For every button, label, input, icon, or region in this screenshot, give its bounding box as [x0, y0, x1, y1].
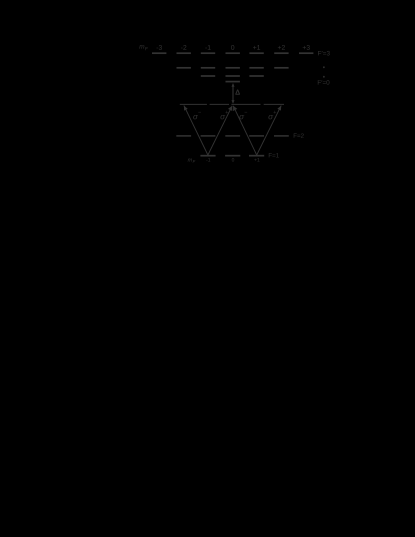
level F=1 m=1: [249, 155, 264, 157]
value label Delta: [236, 90, 240, 95]
level F'=1 m=1: [249, 75, 263, 77]
virtual level dashed line: [180, 103, 207, 105]
level F'=2 m=-2: [177, 67, 191, 69]
level F=1 m=0: [225, 155, 240, 157]
wire label sigma-plus 2: [220, 115, 225, 119]
arrowhead Delta top: [232, 83, 235, 87]
node label m=0 (top): [231, 45, 234, 50]
wire detuning arrow Delta shaft: [232, 84, 234, 103]
node label F'=0: [318, 80, 330, 85]
node label m=3 (top): [303, 45, 310, 50]
wire arrow sigma-plus right: [257, 106, 282, 155]
level F'=3 m=-1: [201, 52, 215, 54]
level F=2 m=-1: [201, 135, 216, 137]
level F=2 m=-2: [176, 135, 191, 137]
vertical ellipsis dots: [323, 66, 325, 68]
level F'=1 m=0: [226, 75, 240, 77]
node label m=-2 (top): [181, 45, 186, 50]
arrowhead Delta bottom: [232, 100, 235, 104]
wire label sigma-plus 4: [268, 115, 273, 119]
level F'=1 m=-1: [201, 75, 215, 77]
level F'=2 m=2: [274, 67, 288, 69]
node label m=-1 (bottom): [206, 158, 210, 161]
level F'=3 m=-2: [177, 52, 191, 54]
level F=2 m=1: [249, 135, 264, 137]
level F=2 m=2: [274, 135, 289, 137]
node label F=1: [269, 153, 279, 157]
node label m=1 (bottom): [254, 158, 259, 161]
level F'=3 m=2: [274, 52, 288, 54]
level F'=2 m=1: [249, 67, 263, 69]
node label m_F (bottom): [188, 159, 192, 162]
node label F'=3: [318, 51, 330, 56]
wire arrow sigma-minus right: [233, 106, 257, 155]
level F'=2 m=-1: [201, 67, 215, 69]
node label m=-1 (top): [205, 45, 210, 50]
level F'=3 m=-3: [152, 52, 166, 54]
wire arrow sigma-minus left: [184, 106, 208, 155]
node label m=0 (bottom): [232, 158, 234, 162]
node label m=-3 (top): [156, 45, 161, 50]
level F'=3 m=3: [299, 52, 313, 54]
wire label sigma-minus 1: [193, 115, 198, 119]
level F'=3 m=1: [249, 52, 263, 54]
node label F=2: [294, 133, 304, 137]
node label m_F (top): [139, 45, 144, 48]
level F'=0 m=0: [226, 81, 240, 83]
level F'=3 m=0: [226, 52, 240, 54]
level F'=2 m=0: [226, 67, 240, 69]
level F=2 m=0: [225, 135, 240, 137]
node label m=1 (top): [253, 45, 260, 50]
wire arrow sigma-plus left: [208, 106, 232, 155]
level F=1 m=-1: [200, 155, 215, 157]
node label m=2 (top): [278, 45, 285, 50]
wire label sigma-minus 3: [239, 115, 244, 119]
